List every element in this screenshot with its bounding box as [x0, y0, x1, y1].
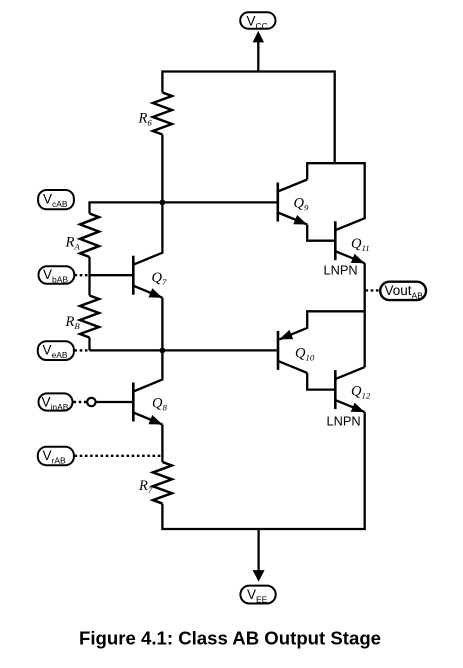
resistor RB [80, 296, 99, 338]
terminal box VbAB [39, 266, 75, 284]
input terminal circle [87, 398, 95, 406]
wire RB to VeAB node [88, 338, 90, 351]
arrow Q7 emitter [149, 288, 163, 298]
terminal box VCC [240, 12, 275, 28]
terminal box VoutAB [380, 282, 426, 300]
terminal box VcAB [38, 190, 74, 209]
svg-text:Figure 4.1: Class AB Output St: Figure 4.1: Class AB Output Stage [79, 627, 381, 648]
dotted lead VbAB [75, 274, 90, 276]
svg-text:VCC: VCC [247, 14, 268, 32]
svg-text:VrAB: VrAB [43, 448, 67, 466]
arrow Q8 emitter [149, 415, 163, 425]
terminal box VeAB [38, 341, 74, 360]
wire Q8 emitter to R7 [161, 425, 163, 463]
wire RA to VbAB node [88, 257, 90, 296]
wire Q9 emitter to Q11 base [307, 225, 334, 241]
wire VinAB to Q8 base [96, 401, 132, 403]
svg-text:R7: R7 [138, 478, 153, 495]
wire VcAB net (node C) [90, 202, 277, 213]
wire bottom rail [162, 412, 364, 529]
wire top rail [162, 72, 334, 164]
terminal box VrAB [38, 447, 74, 465]
svg-text:VoutAB: VoutAB [385, 283, 424, 301]
wire Q10 emitter loop [279, 311, 364, 339]
transistor Q12 [335, 367, 364, 412]
wire output net [364, 263, 366, 367]
svg-text:LNPN: LNPN [327, 414, 361, 429]
svg-text:Q11: Q11 [351, 236, 370, 253]
svg-text:RA: RA [65, 235, 81, 252]
svg-text:VbAB: VbAB [43, 267, 68, 285]
arrow to VCC [253, 31, 264, 43]
transistor Q7 [133, 256, 162, 298]
svg-text:VEE: VEE [247, 587, 268, 605]
wire VbAB to Q7 base [90, 274, 133, 276]
svg-text:R6: R6 [138, 111, 153, 128]
arrow Q9 emitter [293, 215, 307, 225]
arrow to VEE [253, 570, 265, 582]
wire VEE tap [257, 529, 259, 572]
svg-text:VeAB: VeAB [43, 343, 68, 361]
svg-text:Q10: Q10 [295, 346, 315, 363]
dotted lead VeAB [75, 349, 90, 351]
svg-text:Q12: Q12 [351, 384, 371, 401]
wire VCC tap [257, 40, 259, 72]
wire Q9 collector loop [307, 163, 365, 230]
wire Q10 collector to Q12 base [307, 373, 334, 390]
svg-text:LNPN: LNPN [324, 263, 358, 278]
terminal box VinAB [39, 393, 73, 410]
wire Q7 emitter to Q8 collector [133, 298, 162, 392]
svg-text:Q7: Q7 [152, 270, 167, 287]
svg-text:RB: RB [65, 314, 81, 331]
wire VeAB net [90, 349, 277, 351]
transistor Q11 [335, 221, 364, 263]
arrow Q11 emitter [351, 254, 365, 264]
svg-text:Q9: Q9 [294, 196, 309, 213]
resistor RA [80, 214, 99, 258]
arrow Q12 emitter [351, 403, 365, 413]
resistor R6 [153, 93, 172, 135]
dotted lead VrAB [75, 455, 162, 457]
dotted lead VoutAB [366, 289, 380, 291]
resistor R7 [153, 462, 172, 504]
wire R6 to Q7 collector node [133, 135, 162, 265]
transistor Q8 [133, 383, 162, 425]
arrow Q10 emitter [279, 330, 293, 340]
svg-text:VcAB: VcAB [43, 192, 68, 210]
junction node E [160, 348, 166, 354]
svg-text:VinAB: VinAB [42, 395, 69, 413]
transistor Q10 [278, 331, 307, 373]
transistor Q9 [278, 180, 307, 225]
terminal box VEE [240, 586, 275, 604]
dotted lead VinAB [74, 401, 88, 403]
junction node C [160, 200, 166, 206]
svg-text:Q8: Q8 [152, 396, 167, 413]
